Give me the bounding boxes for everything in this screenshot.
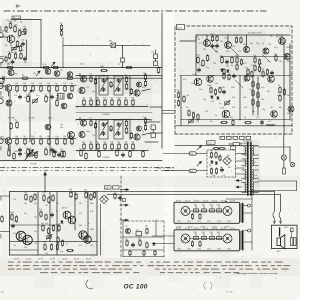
svg-text:1k5: 1k5 <box>22 39 25 41</box>
svg-text:T 405: T 405 <box>192 74 196 76</box>
svg-text:680: 680 <box>84 190 87 192</box>
faint revision text rows <box>8 262 290 274</box>
svg-text:4.7k: 4.7k <box>44 147 47 149</box>
svg-text:10µ: 10µ <box>191 83 194 85</box>
connector arrow 2 <box>120 204 128 206</box>
resistor R107 <box>7 64 14 69</box>
strip 2 resistors 2 <box>26 94 47 102</box>
svg-text:SPULE: SPULE <box>217 221 221 223</box>
loudspeaker LS1 <box>277 235 285 249</box>
capacitor C102 <box>22 39 25 46</box>
svg-text:0.25: 0.25 <box>18 58 21 60</box>
svg-text:4.7k: 4.7k <box>222 117 225 119</box>
svg-text:100k: 100k <box>80 64 84 66</box>
svg-text:0.63: 0.63 <box>254 175 257 177</box>
svg-text:10µ: 10µ <box>249 89 252 91</box>
capacitor C101 <box>22 29 26 34</box>
svg-text:10µ: 10µ <box>55 98 58 100</box>
svg-text:4.7k: 4.7k <box>244 107 247 109</box>
svg-text:2.2k: 2.2k <box>13 221 16 223</box>
amp right col parts <box>278 85 294 112</box>
svg-text:100k: 100k <box>10 212 14 214</box>
wires to echo box <box>152 220 174 244</box>
strip2 second transistor <box>55 98 67 109</box>
svg-text:33k: 33k <box>69 189 72 191</box>
svg-text:10µ: 10µ <box>220 41 223 43</box>
strip 3 input transistor <box>0 138 12 149</box>
resistor R109 <box>52 66 59 68</box>
capacitor C104 <box>3 77 4 80</box>
psu oval label GL501 <box>189 152 196 156</box>
svg-text:100k: 100k <box>212 175 216 177</box>
connector parts right <box>145 120 160 142</box>
svg-text:2.2k: 2.2k <box>210 150 213 152</box>
svg-text:0.1µ: 0.1µ <box>110 141 113 143</box>
ob bottom labels <box>14 258 91 260</box>
speaker top box <box>290 228 293 232</box>
svg-text:0.25: 0.25 <box>103 141 106 143</box>
amp T411 <box>284 54 290 60</box>
svg-text:4.7k: 4.7k <box>209 157 212 159</box>
ob rails <box>10 225 61 250</box>
svg-text:220: 220 <box>34 217 37 219</box>
mixer transistor TB <box>45 69 51 75</box>
svg-text:47µ: 47µ <box>60 124 63 126</box>
svg-text:2.2k: 2.2k <box>63 83 66 85</box>
underside parts <box>213 147 225 149</box>
svg-text:33k: 33k <box>203 49 206 51</box>
svg-text:5µ: 5µ <box>142 131 144 133</box>
mix node X1 <box>109 41 150 58</box>
strip 3 resistors 2 <box>26 147 47 155</box>
svg-text:MOTOR: MOTOR <box>203 201 208 203</box>
strip3 extra parts <box>54 149 64 157</box>
amp verticals <box>240 40 290 134</box>
amp underside rail <box>175 145 258 147</box>
EQ 1 bottom row <box>76 97 148 106</box>
ob power transistors right <box>79 231 91 244</box>
crossover wires to amp <box>162 111 175 114</box>
svg-text:100k: 100k <box>14 25 18 27</box>
svg-text:SOUND: SOUND <box>200 227 205 229</box>
svg-text:5µ: 5µ <box>56 211 58 213</box>
svg-text:5µ: 5µ <box>55 83 57 85</box>
svg-text:GL501: GL501 <box>189 153 194 155</box>
EQ 2 top parts <box>89 118 97 129</box>
resistor R111 <box>126 66 133 68</box>
svg-text:2.2k: 2.2k <box>268 44 271 46</box>
svg-text:5µ: 5µ <box>26 147 28 149</box>
svg-text:220: 220 <box>31 83 34 85</box>
cable hook curves <box>273 211 282 224</box>
svg-text:TREBLE: TREBLE <box>102 157 110 159</box>
amp T404 <box>263 48 269 54</box>
strip 3 resistor row <box>12 136 76 145</box>
amp diagonal wires <box>210 46 270 88</box>
svg-text:10µ: 10µ <box>45 253 48 255</box>
svg-text:100k: 100k <box>86 131 90 133</box>
strip 2 caps <box>19 95 54 99</box>
svg-text:5µ: 5µ <box>79 148 81 150</box>
board separator dash-dot <box>0 167 174 170</box>
signal arrow c <box>28 90 32 95</box>
svg-text:2.2k: 2.2k <box>39 209 42 211</box>
strip 2 resistor row <box>12 83 76 92</box>
svg-text:0.25: 0.25 <box>256 117 259 119</box>
svg-text:4.5k: 4.5k <box>33 73 36 75</box>
svg-text:10µ: 10µ <box>92 91 95 93</box>
svg-text:LS 25: LS 25 <box>284 227 288 229</box>
psu bridge rectifier <box>223 157 232 166</box>
amp bias cluster <box>220 55 253 80</box>
svg-text:10µ: 10µ <box>177 90 180 92</box>
svg-text:5µ: 5µ <box>22 74 24 76</box>
svg-text:10µ: 10µ <box>261 69 264 71</box>
extra labels amp upper <box>199 36 290 69</box>
connector arrow 1 <box>121 189 129 191</box>
amp rail3 <box>175 119 292 127</box>
svg-text:0.25: 0.25 <box>43 241 46 243</box>
svg-text:100k: 100k <box>13 21 17 23</box>
cluster tone underlays <box>0 18 291 255</box>
svg-text:1k5: 1k5 <box>131 141 134 143</box>
svg-text:47µ: 47µ <box>60 149 63 151</box>
row4 cluster c <box>79 148 100 159</box>
svg-text:4.7k: 4.7k <box>238 51 241 53</box>
svg-text:1k5: 1k5 <box>267 91 270 93</box>
svg-text:2.2k: 2.2k <box>261 99 264 101</box>
svg-text:MOTOR: MOTOR <box>230 228 235 230</box>
strip 2 verticals <box>10 90 50 142</box>
amp connector strip <box>220 136 251 140</box>
svg-text:33k: 33k <box>60 127 63 129</box>
extra labels eq <box>86 85 145 137</box>
EQ 2 out transistor C <box>134 126 150 140</box>
svg-text:100k: 100k <box>143 73 147 75</box>
svg-text:1k5: 1k5 <box>270 107 273 109</box>
svg-text:6.3: 6.3 <box>254 162 256 164</box>
svg-text:0.1µ: 0.1µ <box>34 203 37 205</box>
strip3 pre parts <box>10 120 63 130</box>
svg-text:5µ: 5µ <box>278 85 280 87</box>
psu wires left <box>163 154 207 171</box>
svg-text:SPULE: SPULE <box>187 221 191 223</box>
svg-text:220: 220 <box>60 23 63 25</box>
amp rail mid light <box>220 56 290 58</box>
mixer transistor TA <box>8 70 14 76</box>
svg-text:MOTOR: MOTOR <box>212 201 217 203</box>
inner col 1 <box>191 213 201 219</box>
svg-text:10µ: 10µ <box>110 97 113 99</box>
ob driver transistors <box>62 207 76 224</box>
svg-text:1k5: 1k5 <box>274 53 277 55</box>
svg-text:33k: 33k <box>215 83 218 85</box>
EQ 2 transistor A <box>80 118 87 127</box>
resistor R112 <box>22 74 29 79</box>
module label box <box>177 25 185 30</box>
signal arrow b <box>51 62 55 67</box>
row4 cluster b <box>52 149 66 158</box>
EQ 2 top rail <box>76 120 150 151</box>
scan noise filter def <box>0 0 1 1</box>
wire ch1 top <box>11 20 41 68</box>
svg-text:0.1µ: 0.1µ <box>136 229 139 231</box>
svg-text:680: 680 <box>245 67 248 69</box>
svg-text:SR 200/300: SR 200/300 <box>243 140 252 142</box>
svg-text:33k: 33k <box>220 167 223 169</box>
amp T410 <box>276 34 285 44</box>
svg-text:100k: 100k <box>196 54 200 56</box>
strip 3 verticals <box>10 143 50 155</box>
svg-text:0.25: 0.25 <box>79 245 82 247</box>
EQ 1 treble pot box <box>99 76 108 95</box>
svg-text:MOTOR: MOTOR <box>185 201 190 203</box>
svg-text:220: 220 <box>124 75 127 77</box>
svg-text:100k: 100k <box>90 229 94 231</box>
svg-text:SPULE: SPULE <box>187 248 191 250</box>
svg-text:10µ: 10µ <box>82 141 85 143</box>
svg-text:4.7k: 4.7k <box>90 211 93 213</box>
svg-text:10µ: 10µ <box>259 63 262 65</box>
svg-text:SPULE: SPULE <box>227 221 231 223</box>
strip 2 input transistor <box>0 85 12 96</box>
pilot lamp La2 <box>290 162 295 167</box>
EQ 1 transistor A <box>80 74 87 83</box>
svg-text:680: 680 <box>228 167 231 169</box>
svg-text:10µ: 10µ <box>24 203 27 205</box>
svg-text:VOLUME: VOLUME <box>28 117 35 119</box>
svg-text:2.2k: 2.2k <box>222 175 225 177</box>
svg-text:MOTOR: MOTOR <box>221 201 226 203</box>
svg-text:47µ: 47µ <box>203 99 206 101</box>
psu switch arrow 1 <box>197 145 202 150</box>
handwritten mark <box>86 280 93 289</box>
svg-text:100k: 100k <box>14 151 18 153</box>
svg-text:MOTOR: MOTOR <box>176 201 181 203</box>
ob emitter resistors <box>43 241 73 251</box>
svg-text:4.7k: 4.7k <box>6 20 9 22</box>
amp out inductor <box>266 124 275 126</box>
svg-text:1k5: 1k5 <box>41 223 44 225</box>
svg-text:SPULE: SPULE <box>227 248 231 250</box>
svg-text:4.7k: 4.7k <box>199 43 202 45</box>
switch row 1 <box>190 203 223 212</box>
strip 3 pot <box>33 153 37 155</box>
tone control labels <box>76 112 152 119</box>
amp T409 <box>271 111 278 118</box>
EQ 2 bottom row <box>76 141 148 150</box>
svg-text:10µ: 10µ <box>218 157 221 159</box>
mixer bus 1 <box>0 67 162 68</box>
speaker resistors <box>291 231 297 246</box>
svg-text:4.7k: 4.7k <box>243 81 246 83</box>
svg-text:1k5: 1k5 <box>145 225 148 227</box>
echo box 1 top labels <box>176 201 235 203</box>
svg-text:1k5: 1k5 <box>89 141 92 143</box>
svg-text:10µ: 10µ <box>20 21 23 23</box>
svg-text:0.25: 0.25 <box>79 213 82 215</box>
strip 2 pot <box>33 100 37 102</box>
amp mid cols <box>235 55 261 72</box>
psu switch arrow 2 <box>197 161 202 166</box>
svg-text:SPULE: SPULE <box>197 248 201 250</box>
resistor R105 <box>19 45 22 52</box>
amp T402 <box>224 35 231 48</box>
svg-text:0.1µ: 0.1µ <box>274 47 277 49</box>
row4 pot <box>25 150 37 161</box>
svg-text:1k5: 1k5 <box>45 205 48 207</box>
svg-text:33k: 33k <box>5 45 8 47</box>
EQ 1 right parts <box>130 73 146 95</box>
svg-text:10µ: 10µ <box>14 120 17 122</box>
pilot lamp La1 <box>281 134 286 160</box>
svg-text:0.25: 0.25 <box>243 63 246 65</box>
right bar 1 <box>240 204 242 222</box>
svg-text:10µ: 10µ <box>262 49 265 51</box>
bias sub-box dashed top <box>123 221 164 257</box>
svg-text:5µ: 5µ <box>219 103 221 105</box>
right bar 2 <box>240 231 242 249</box>
amp driver cols <box>252 76 259 116</box>
echo unit box 2 <box>174 230 240 251</box>
svg-text:SOUND: SOUND <box>224 227 229 229</box>
EQ 1 top rail <box>76 76 150 107</box>
EQ 2 mid parts <box>110 119 128 134</box>
ob top row parts <box>24 189 96 203</box>
svg-text:SOUND: SOUND <box>188 227 193 229</box>
svg-text:MOTOR: MOTOR <box>26 258 31 260</box>
svg-text:0.1µ: 0.1µ <box>199 89 202 91</box>
svg-text:5µ: 5µ <box>231 65 233 67</box>
svg-text:47µ: 47µ <box>24 213 27 215</box>
switch row 2 <box>190 231 223 240</box>
svg-text:10µ: 10µ <box>89 97 92 99</box>
svg-text:0.1µ: 0.1µ <box>23 26 26 28</box>
svg-text:T 410: T 410 <box>276 34 280 36</box>
svg-text:220: 220 <box>205 111 208 113</box>
svg-text:680: 680 <box>47 136 50 138</box>
svg-text:47µ: 47µ <box>110 129 113 131</box>
svg-text:100k: 100k <box>100 66 104 68</box>
amp bottom cluster left <box>188 110 199 124</box>
echo connector dots <box>244 204 251 232</box>
svg-text:100k: 100k <box>117 97 121 99</box>
svg-text:Änderungen vorbehalten / alter: Änderungen vorbehalten / alterations res… <box>236 272 277 275</box>
svg-text:100k: 100k <box>243 44 247 46</box>
amp T403 <box>244 35 250 53</box>
svg-text:5µ: 5µ <box>66 243 68 245</box>
component pair x63 <box>60 23 64 68</box>
svg-text:T 408: T 408 <box>220 107 224 109</box>
extra labels amp lower <box>183 79 290 123</box>
resistor R108 <box>43 64 50 69</box>
svg-text:T 401: T 401 <box>195 37 199 39</box>
power amp dashed enclosure <box>175 26 292 134</box>
volume text row <box>8 116 52 119</box>
left edge jacks <box>0 31 3 143</box>
svg-text:0.25: 0.25 <box>232 107 235 109</box>
svg-text:1k5: 1k5 <box>39 136 42 138</box>
svg-text:MOTOR: MOTOR <box>194 201 199 203</box>
svg-text:33k: 33k <box>277 95 280 97</box>
bias sub parts row3 <box>129 250 156 256</box>
amp left mid parts <box>196 54 209 72</box>
svg-text:680: 680 <box>11 52 14 54</box>
amp pot 2 <box>225 102 229 104</box>
svg-text:1k5: 1k5 <box>45 223 48 225</box>
transformer secondary taps <box>254 146 259 193</box>
echo box 2 top labels <box>176 228 235 230</box>
amp bottom parts <box>221 117 264 126</box>
svg-text:5µ: 5µ <box>96 141 98 143</box>
svg-text:Gerät Baur 50/70: Gerät Baur 50/70 <box>248 31 262 34</box>
svg-text:1k5: 1k5 <box>52 149 55 151</box>
faint pencil marks <box>204 282 212 290</box>
svg-text:4.7k: 4.7k <box>89 74 92 76</box>
capacitor C105 <box>67 77 74 79</box>
svg-text:1k5: 1k5 <box>46 97 49 99</box>
svg-text:TREBLE: TREBLE <box>102 114 110 116</box>
extra parts topleft <box>5 26 27 62</box>
amp mid extra parts <box>261 53 277 77</box>
psu out wires <box>236 154 245 175</box>
EQ 1 bass pot box <box>114 76 123 95</box>
resistor R110 <box>100 66 107 72</box>
output board inner rails <box>10 192 98 255</box>
svg-text:1k5: 1k5 <box>82 97 85 99</box>
svg-text:47µ: 47µ <box>6 32 9 34</box>
ob left column parts <box>1 212 18 228</box>
amp mid cluster <box>209 85 226 99</box>
svg-text:33k: 33k <box>279 107 282 109</box>
svg-text:0.1µ: 0.1µ <box>60 251 63 253</box>
svg-text:33k: 33k <box>124 97 127 99</box>
svg-text:0.25: 0.25 <box>115 148 118 150</box>
svg-text:2.2k: 2.2k <box>199 65 202 67</box>
EQ 2 treble pot box <box>99 120 108 139</box>
svg-text:SOUND: SOUND <box>176 227 181 229</box>
svg-text:2.2k: 2.2k <box>186 95 189 97</box>
transformer secondary windings <box>252 146 253 195</box>
speaker cabinet box <box>272 225 298 248</box>
svg-text:1k5: 1k5 <box>126 89 129 91</box>
ob extra parts <box>39 209 63 231</box>
svg-text:1k5: 1k5 <box>279 61 282 63</box>
mixer transistor TC <box>54 71 60 77</box>
bias sub parts row1 <box>125 225 148 235</box>
svg-text:2.2k: 2.2k <box>18 29 21 31</box>
svg-text:0.1µ: 0.1µ <box>232 46 235 48</box>
svg-text:BF 257: BF 257 <box>276 37 281 39</box>
svg-text:33k: 33k <box>226 66 229 68</box>
resistor R104 <box>16 41 19 48</box>
svg-text:0.1µ: 0.1µ <box>261 87 264 89</box>
svg-text:0.25: 0.25 <box>232 97 235 99</box>
svg-text:4.7k: 4.7k <box>90 245 93 247</box>
inner col 2 <box>191 241 201 247</box>
svg-text:220: 220 <box>149 120 152 122</box>
svg-text:SPULE: SPULE <box>197 221 201 223</box>
input label box <box>12 16 21 19</box>
svg-text:4.7k: 4.7k <box>14 95 17 97</box>
svg-text:47µ: 47µ <box>124 119 127 121</box>
svg-text:0.1µ: 0.1µ <box>227 155 230 157</box>
resistor R102 <box>14 25 18 33</box>
svg-text:1k5: 1k5 <box>270 36 273 38</box>
svg-text:10µ: 10µ <box>151 52 154 54</box>
svg-text:680: 680 <box>109 41 112 43</box>
transformer primary windings <box>245 146 246 193</box>
